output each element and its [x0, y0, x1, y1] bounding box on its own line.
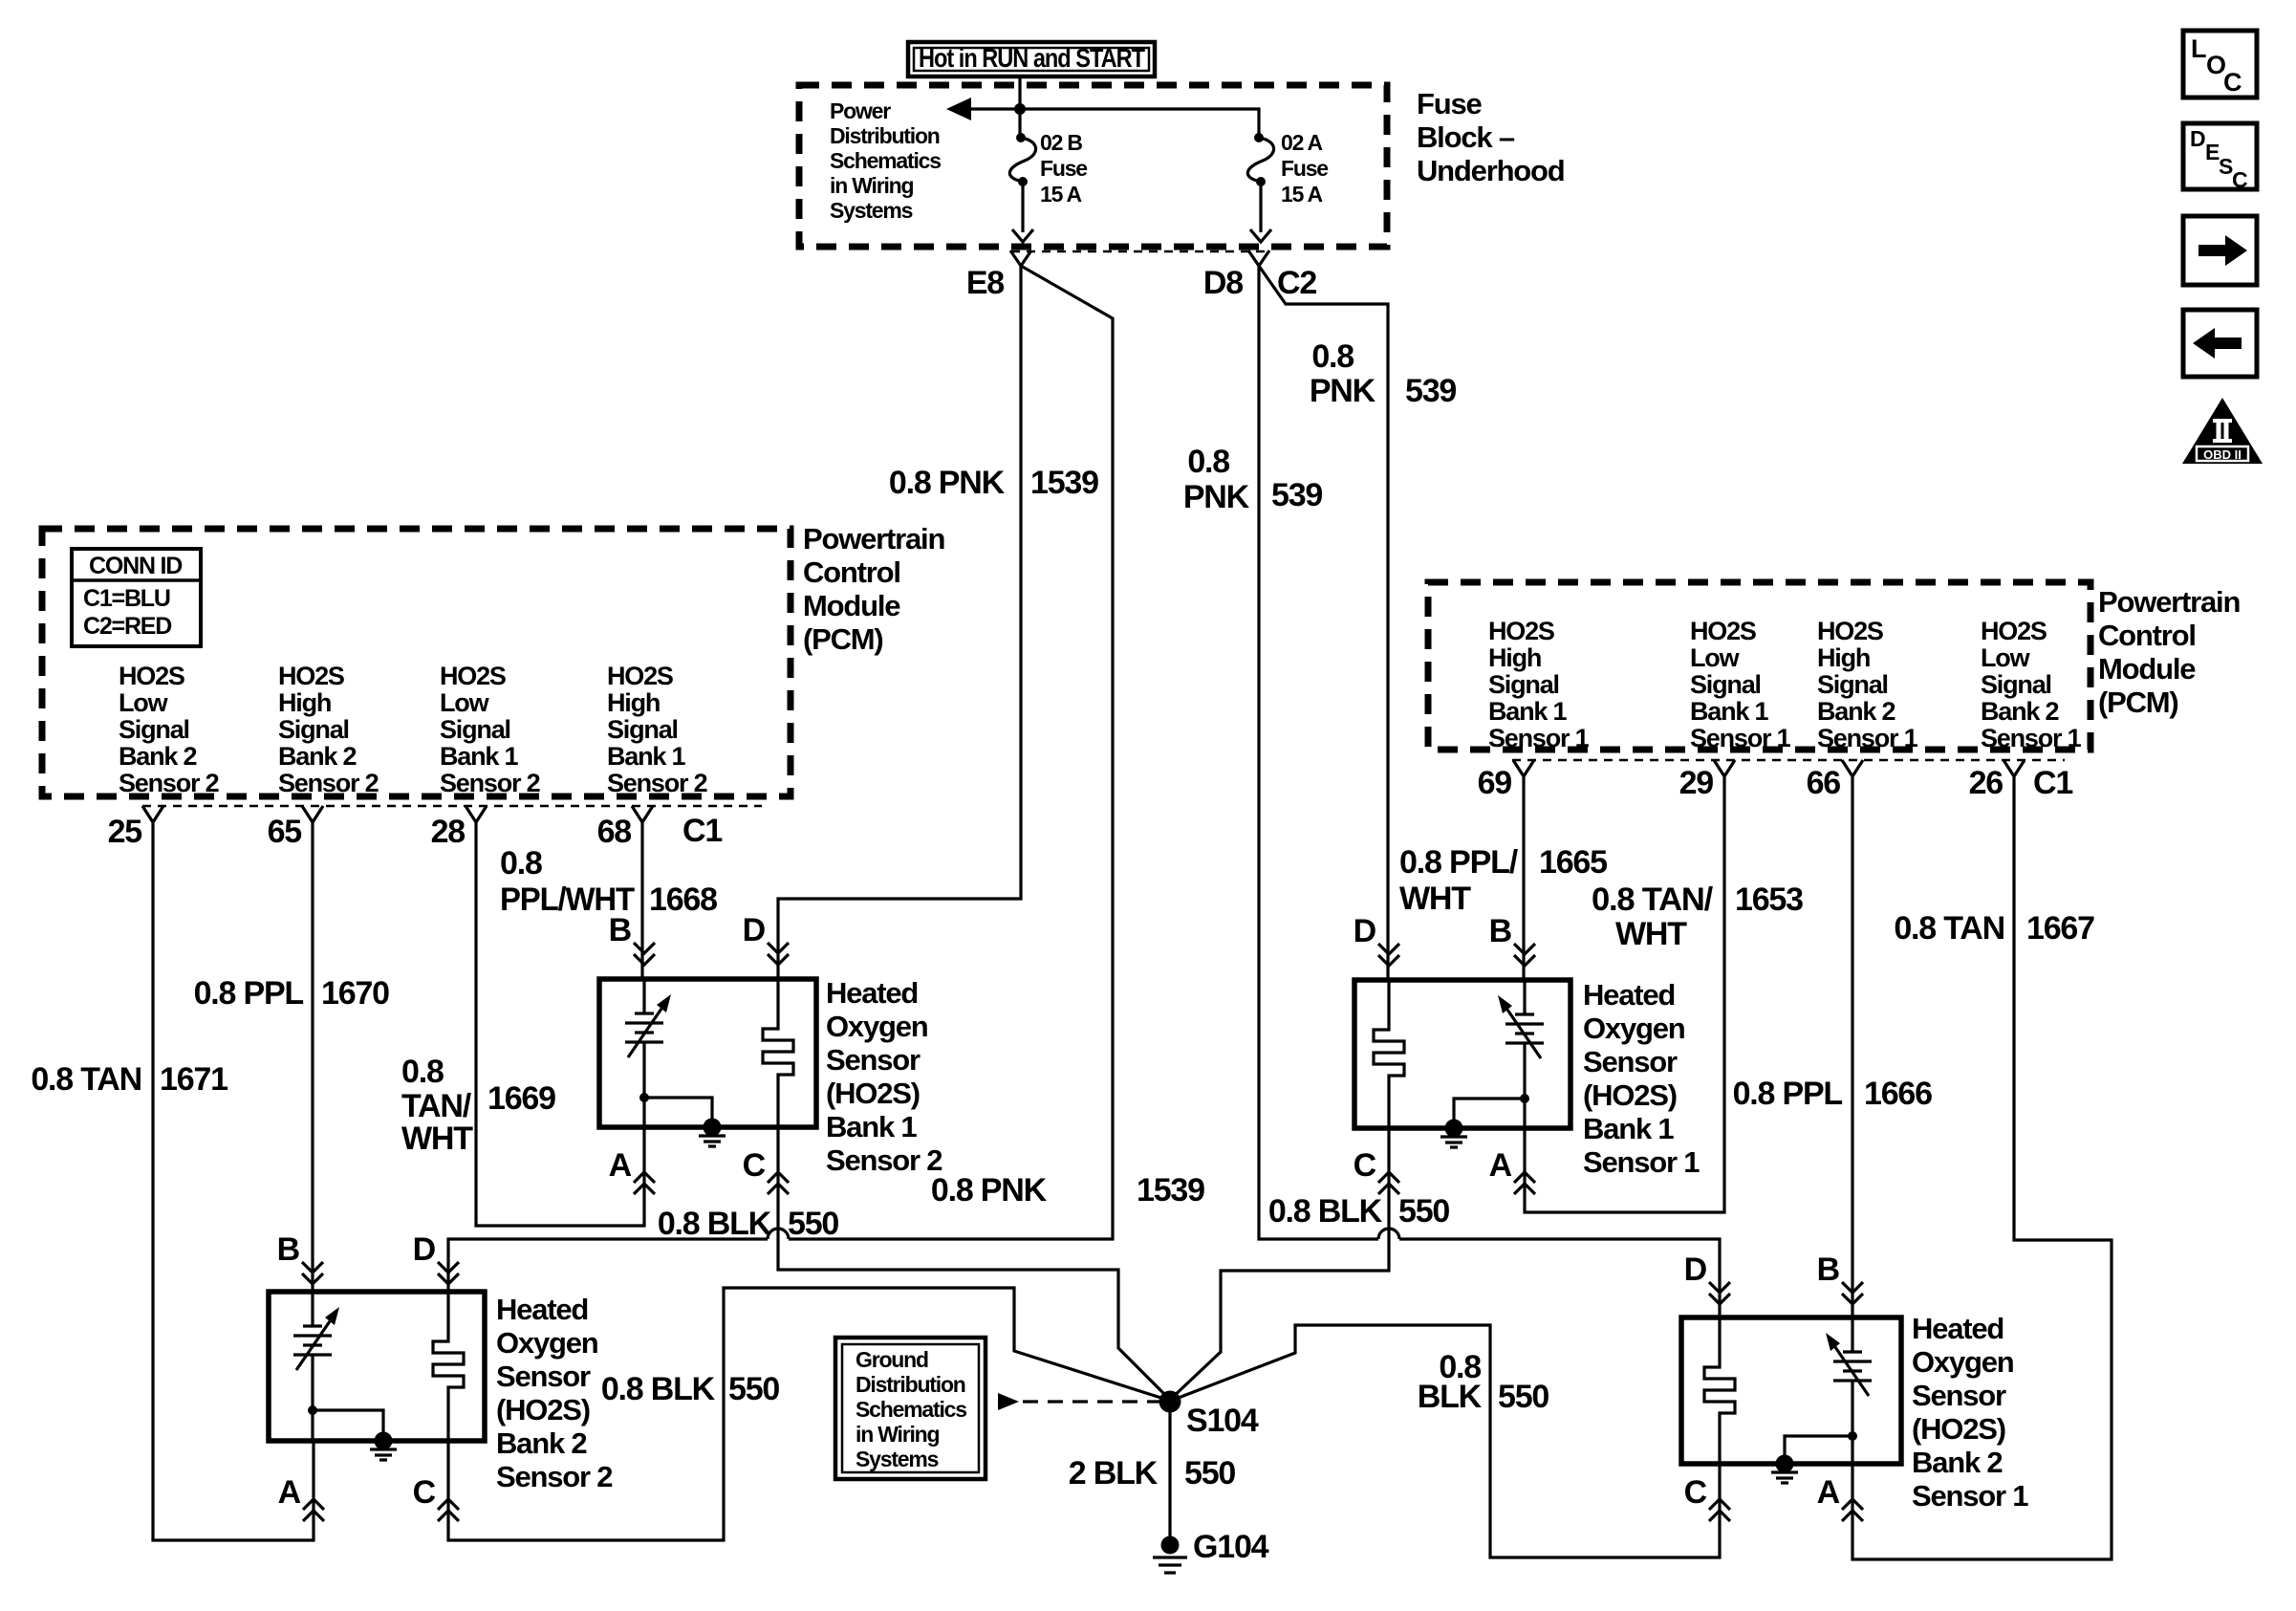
Bank 1 Sensor 2 pin A chevron [634, 1172, 655, 1194]
svg-text:26: 26 [1969, 765, 2004, 801]
svg-text:G104: G104 [1193, 1529, 1269, 1565]
PCM left connector dashed line [142, 805, 762, 808]
svg-text:0.8: 0.8 [1311, 338, 1354, 375]
Bank 2 Sensor 2 internal junction dot [308, 1405, 317, 1415]
wire ground B2S2 C to S104 [448, 1288, 1170, 1540]
wire 1665 pin 69 to B of HO2S B1S1 [1522, 776, 1525, 980]
wire 1539 from E8 to D of HO2S B2S2 [448, 266, 1113, 1292]
ground note reference arrow [998, 1393, 1019, 1410]
svg-text:C1: C1 [682, 813, 722, 849]
Bank 2 Sensor 1 internal ground dot [1776, 1455, 1794, 1473]
Bank 1 Sensor 1 cell arrow [1507, 1010, 1541, 1058]
svg-text:D8: D8 [1203, 265, 1243, 301]
arrowhead to power distribution [946, 98, 971, 120]
svg-text:C: C [2223, 68, 2242, 97]
wire 1653 pin 29 to A of HO2S B1S1 [1525, 776, 1724, 1212]
svg-text:1669: 1669 [487, 1080, 555, 1117]
Bank 2 Sensor 2 cell arrow [296, 1321, 330, 1370]
Bank 1 Sensor 1 internal ground wire [1454, 1099, 1525, 1128]
wire hot feed down into fuse block [1018, 76, 1021, 135]
svg-text:D: D [413, 1231, 436, 1268]
Bank 2 Sensor 2 pin A chevron [303, 1499, 324, 1521]
fuse 02 B 15 A [1016, 133, 1026, 142]
svg-text:E8: E8 [966, 265, 1004, 301]
svg-text:OBD II: OBD II [2203, 447, 2242, 462]
svg-text:550: 550 [1184, 1455, 1235, 1491]
svg-text:0.8: 0.8 [500, 845, 542, 882]
wire 539 from D8 to D of HO2S B2S1 [1259, 266, 1720, 1317]
wire 550 S104 to G104 [1168, 1402, 1171, 1537]
svg-text:O: O [2206, 51, 2225, 79]
svg-text:TAN/: TAN/ [401, 1088, 472, 1124]
pin 65 fork [302, 806, 323, 822]
Bank 2 Sensor 1 internal ground wire [1785, 1436, 1852, 1464]
svg-text:69: 69 [1478, 765, 1512, 801]
Bank 1 Sensor 1 pin C chevron [1378, 1172, 1399, 1194]
svg-text:1653: 1653 [1735, 882, 1803, 918]
Bank 2 Sensor 2 sensor cell [293, 1292, 332, 1441]
wire ground B1S1 C to S104 [1170, 1128, 1389, 1400]
svg-text:BLK: BLK [1418, 1379, 1483, 1415]
PCM left dashed box [42, 529, 791, 796]
svg-text:S104: S104 [1186, 1403, 1259, 1439]
svg-text:539: 539 [1405, 373, 1456, 409]
svg-text:C2=RED: C2=RED [83, 613, 171, 640]
ground G104 [1161, 1536, 1180, 1555]
svg-text:D: D [1684, 1252, 1707, 1288]
svg-text:B: B [1489, 913, 1512, 949]
svg-text:C2: C2 [1277, 265, 1316, 301]
Bank 1 Sensor 1 pin B chevron [1514, 944, 1535, 966]
svg-text:1668: 1668 [649, 882, 717, 918]
wire 1539 from E8 to D of HO2S B1S2 [778, 266, 1021, 979]
svg-text:65: 65 [268, 814, 302, 850]
Bank 2 Sensor 2 internal ground dot [375, 1432, 393, 1450]
svg-text:1671: 1671 [160, 1061, 227, 1098]
wire 1669 pin 28 to A of HO2S B1S2 [476, 822, 644, 1226]
svg-text:E: E [2205, 140, 2220, 164]
HO2S Bank 2 Sensor 2 box [269, 1292, 485, 1441]
note Ground Distribution Schematics box [835, 1338, 986, 1479]
svg-text:C: C [413, 1474, 436, 1511]
svg-text:D: D [2190, 126, 2205, 151]
Bank 2 Sensor 1 pin C chevron [1709, 1499, 1730, 1521]
Bank 1 Sensor 1 internal ground dot [1445, 1120, 1463, 1138]
CONN ID table [72, 549, 201, 646]
svg-text:550: 550 [728, 1371, 779, 1407]
Bank 2 Sensor 2 ground symbol [370, 1449, 397, 1460]
svg-text:0.8 TAN: 0.8 TAN [1894, 910, 2004, 947]
wire 1671 pin 25 to A of HO2S B2S2 [153, 822, 314, 1540]
svg-text:29: 29 [1679, 765, 1714, 801]
svg-text:1667: 1667 [2026, 910, 2094, 947]
svg-text:D: D [1354, 913, 1376, 949]
svg-text:A: A [1817, 1474, 1840, 1511]
Bank 1 Sensor 2 heater element [763, 979, 793, 1127]
HO2S Bank 2 Sensor 1 box [1681, 1317, 1901, 1464]
Bank 1 Sensor 1 internal junction dot [1520, 1094, 1529, 1103]
PCM right connector dashed line [1512, 759, 2065, 762]
pin 68 fork [632, 806, 653, 822]
svg-text:0.8: 0.8 [1187, 444, 1229, 480]
Bank 2 Sensor 2 pin B chevron [302, 1262, 323, 1284]
svg-text:D: D [743, 912, 766, 948]
Bank 1 Sensor 2 sensor cell [625, 979, 663, 1127]
Bank 2 Sensor 1 sensor cell [1833, 1317, 1872, 1464]
Bank 2 Sensor 1 internal junction dot [1848, 1431, 1857, 1441]
svg-text:2 BLK: 2 BLK [1069, 1455, 1159, 1491]
Bank 1 Sensor 1 pin A chevron [1514, 1172, 1535, 1194]
fuse 02 A 15 A [1254, 133, 1264, 142]
pin 29 fork [1714, 760, 1735, 776]
svg-text:25: 25 [108, 814, 142, 850]
Bank 1 Sensor 1 ground symbol [1440, 1137, 1467, 1147]
svg-text:28: 28 [431, 814, 466, 850]
svg-text:02 AFuse15 A: 02 AFuse15 A [1281, 130, 1328, 207]
svg-text:1666: 1666 [1864, 1076, 1932, 1112]
Bank 1 Sensor 2 internal ground dot [704, 1119, 722, 1137]
icon LOC [2183, 31, 2257, 98]
wire 1670 pin 65 to B of HO2S B2S2 [311, 822, 314, 1292]
wire ground B1S2 C to S104 [778, 1127, 1170, 1400]
svg-text:0.8 BLK: 0.8 BLK [658, 1206, 772, 1242]
Bank 2 Sensor 2 internal ground wire [313, 1410, 383, 1441]
svg-text:0.8 PPL: 0.8 PPL [194, 975, 304, 1012]
svg-text:B: B [277, 1231, 300, 1268]
svg-text:0.8 BLK: 0.8 BLK [601, 1371, 716, 1407]
Bank 1 Sensor 2 pin C chevron [768, 1172, 789, 1194]
svg-text:C: C [2232, 167, 2247, 192]
Bank 1 Sensor 2 internal ground wire [644, 1098, 712, 1127]
Bank 1 Sensor 2 ground symbol [699, 1136, 726, 1146]
junction dot at fuse feed [1014, 103, 1026, 115]
Bank 1 Sensor 2 pin D chevron [768, 943, 789, 965]
PCM right dashed box [1428, 582, 2090, 750]
icon OBD II triangle [2182, 398, 2263, 464]
svg-text:S: S [2219, 154, 2233, 179]
Bank 2 Sensor 2 pin D chevron [438, 1262, 459, 1284]
Bank 2 Sensor 1 pin A chevron [1842, 1499, 1863, 1521]
dashed reference wire to S104 [1023, 1400, 1159, 1403]
svg-text:C: C [1684, 1474, 1707, 1511]
svg-text:68: 68 [597, 814, 632, 850]
svg-text:WHT: WHT [401, 1121, 473, 1157]
svg-text:PNK: PNK [1310, 373, 1376, 409]
svg-text:550: 550 [1398, 1193, 1449, 1230]
svg-text:A: A [278, 1474, 301, 1511]
Bank 2 Sensor 1 pin B chevron [1842, 1282, 1863, 1304]
svg-text:WHT: WHT [1399, 881, 1471, 917]
power label box Hot in RUN and START [908, 42, 1155, 76]
icon arrow right [2183, 216, 2257, 285]
svg-text:0.8 TAN: 0.8 TAN [31, 1061, 141, 1098]
wire 1668 pin 68 to B of HO2S B1S2 [640, 822, 643, 979]
pin D8 fork [1248, 250, 1269, 266]
svg-text:1539: 1539 [1137, 1172, 1204, 1208]
svg-text:66: 66 [1807, 765, 1841, 801]
wire bus to fuses and power distribution arrow [969, 109, 1259, 137]
icon DESC [2183, 123, 2257, 189]
Bank 1 Sensor 1 pin D chevron [1378, 944, 1399, 966]
Bank 2 Sensor 1 pin D chevron [1709, 1282, 1730, 1304]
svg-text:0.8 PNK: 0.8 PNK [889, 465, 1006, 501]
pin E8 fork [1010, 250, 1031, 266]
svg-text:PNK: PNK [1183, 479, 1250, 515]
pin 69 fork [1513, 760, 1534, 776]
svg-text:WHT: WHT [1615, 916, 1687, 952]
svg-text:0.8: 0.8 [401, 1054, 444, 1090]
svg-text:0.8 PPL/: 0.8 PPL/ [1399, 844, 1519, 881]
Bank 1 Sensor 1 sensor cell [1505, 980, 1544, 1128]
icon arrow left [2183, 310, 2257, 377]
svg-text:539: 539 [1271, 477, 1322, 513]
connector dashed line below fuse block [1011, 250, 1268, 253]
splice S104 [1159, 1391, 1181, 1413]
svg-text:1665: 1665 [1539, 844, 1607, 881]
wire ground B2S1 C to S104 [1171, 1325, 1720, 1557]
pin 66 fork [1842, 760, 1863, 776]
svg-text:0.8 BLK: 0.8 BLK [1268, 1193, 1383, 1230]
svg-text:A: A [609, 1147, 632, 1184]
Bank 1 Sensor 2 cell arrow [628, 1009, 661, 1057]
pin 25 fork [142, 806, 163, 822]
svg-text:0.8 TAN/: 0.8 TAN/ [1592, 882, 1714, 918]
wire 1667 pin 26 to A of HO2S B2S1 [1852, 776, 2112, 1559]
svg-text:1539: 1539 [1030, 465, 1098, 501]
Bank 1 Sensor 2 pin B chevron [634, 943, 655, 965]
svg-text:Hot in RUN and START: Hot in RUN and START [919, 43, 1145, 73]
HO2S Bank 1 Sensor 2 box [599, 979, 816, 1127]
wire 539 from C2 to D of HO2S B1S1 [1259, 266, 1388, 980]
Bank 2 Sensor 1 ground symbol [1771, 1472, 1798, 1483]
Bank 2 Sensor 2 pin C chevron [438, 1499, 459, 1521]
pin 28 fork [466, 806, 487, 822]
svg-text:550: 550 [788, 1206, 838, 1242]
Bank 1 Sensor 2 internal junction dot [639, 1093, 649, 1102]
svg-text:C: C [743, 1147, 766, 1184]
svg-text:CONN ID: CONN ID [89, 553, 182, 579]
svg-text:C: C [1354, 1147, 1376, 1184]
svg-text:L: L [2191, 34, 2206, 63]
svg-text:C1=BLU: C1=BLU [83, 585, 170, 612]
fuse block dashed box [799, 85, 1387, 247]
Bank 2 Sensor 2 heater element [433, 1292, 464, 1441]
Bank 1 Sensor 1 heater element [1374, 980, 1404, 1128]
svg-text:B: B [609, 912, 632, 948]
svg-text:B: B [1817, 1252, 1840, 1288]
Bank 2 Sensor 1 heater element [1704, 1317, 1735, 1464]
svg-text:A: A [1489, 1147, 1512, 1184]
svg-text:0.8 PNK: 0.8 PNK [931, 1172, 1048, 1208]
svg-text:C1: C1 [2033, 765, 2072, 801]
HO2S Bank 1 Sensor 1 box [1354, 980, 1570, 1128]
pin 26 fork [2004, 760, 2025, 776]
svg-text:550: 550 [1498, 1379, 1549, 1415]
wire 1666 pin 66 to B of HO2S B2S1 [1851, 776, 1853, 1317]
svg-text:02 BFuse15 A: 02 BFuse15 A [1040, 130, 1087, 207]
svg-text:1670: 1670 [321, 975, 389, 1012]
Bank 2 Sensor 1 cell arrow [1835, 1347, 1869, 1396]
svg-text:0.8 PPL: 0.8 PPL [1733, 1076, 1843, 1112]
